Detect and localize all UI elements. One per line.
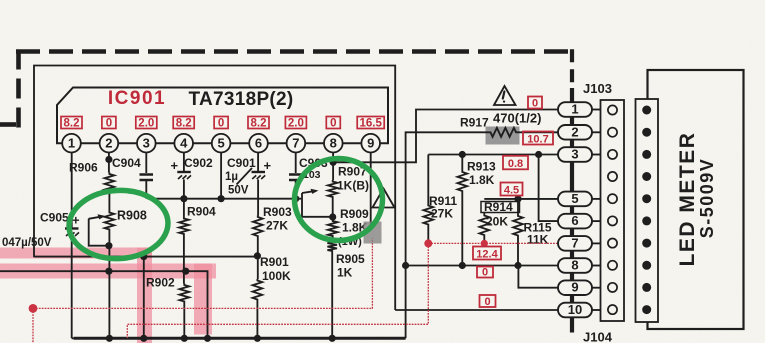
R908 wiper arrow (89, 217, 101, 219)
junction node at 462.3,154.5 (459, 151, 466, 158)
plug pin dot 2 (642, 128, 651, 137)
highlighter band upper horizontal (0, 248, 152, 259)
ground bus wire y=338.3 (74, 337, 406, 340)
outer solid box top/left/right (34, 66, 395, 311)
junction node at 333.1,162.3 (330, 159, 337, 166)
junction node at 183.9,198.7 (180, 195, 187, 202)
paper scan noise (0, 0, 1, 1)
wire pin1 down (71, 152, 73, 228)
junction node at 332.2,338.3 (329, 335, 336, 342)
wire oval2 left with corner down to bus (406, 132, 558, 338)
pin 7 circle (287, 134, 306, 153)
wire oval9 (518, 266, 558, 288)
junction node at 518,265.5 (514, 262, 521, 269)
highlighter band lower horizontal (0, 264, 216, 279)
resistor R911 (427, 155, 429, 205)
pin 5 voltage label 0 (214, 117, 228, 129)
warning triangle near R909 (373, 189, 395, 208)
voltage label 0.8 (503, 156, 528, 170)
red wire lower horizontal (33, 238, 372, 308)
pin 7 voltage label 2.0 (285, 117, 306, 129)
wire gnd horizontal y=256.6 (34, 256, 257, 258)
pin 1 circle (62, 134, 81, 153)
resistor R115 (517, 199, 519, 215)
wire oval3 (428, 154, 558, 156)
resistor R905 (327, 239, 337, 253)
pin 6 voltage label 8.2 (248, 117, 269, 129)
wire ovals3-6 junction vertical (539, 155, 558, 222)
connector J103/J104 pin 1 oval (558, 102, 592, 117)
plug pin dot 10 (642, 305, 651, 314)
pin 4 circle (174, 134, 193, 153)
red junction dot R914 bottom (481, 240, 488, 247)
red wire to oval7 (428, 242, 558, 244)
wire pin8 down (332, 152, 334, 180)
socket circle 5 (608, 194, 617, 203)
voltage label 0 (480, 295, 496, 307)
warning triangle top (494, 86, 516, 105)
capacitor C902 (177, 171, 191, 173)
plug pin dot 1 (642, 106, 651, 115)
junction node at 109.4,338.3 (106, 335, 113, 342)
junction node at 143.8,256.6 (140, 253, 147, 260)
socket circle 4 (608, 172, 617, 181)
pin 3 voltage label 2.0 (136, 117, 157, 129)
junction node at 462.3,265.5 (459, 262, 466, 269)
capacitor C905 (65, 227, 79, 229)
R907 wiper return loop (302, 193, 333, 217)
pin 9 voltage label 16.5 (357, 117, 384, 129)
wire C905 down to bus (72, 237, 75, 339)
junction node at 257.4,255.9 (254, 252, 261, 259)
socket circle 10 (608, 305, 617, 314)
junction node at 185.7,271.2 (182, 268, 189, 275)
resistor R914 with boxed label (481, 202, 520, 213)
resistor R903 (253, 216, 263, 238)
green annotation circle around R909 (295, 159, 383, 241)
wire oval10 (395, 309, 558, 311)
highlighter band vertical 1 (137, 248, 152, 343)
junction node at 405.6,265.5 (402, 262, 409, 269)
wire oval5 (484, 198, 558, 200)
red junction dot left (29, 304, 38, 313)
red junction dot R911 bottom (424, 239, 432, 247)
dashed boundary left stub (0, 122, 16, 127)
connector J103/J104 pin 6 oval (558, 214, 592, 229)
wire pin3 down (145, 152, 147, 173)
resistor R909 (328, 220, 338, 238)
voltage label 10.7 (523, 132, 553, 145)
voltage label 0 (528, 97, 542, 109)
resistor R917 (489, 128, 518, 137)
resistor R908 (variable) (105, 211, 115, 231)
resistor R906 (105, 173, 115, 193)
resistor R901 (253, 279, 263, 301)
junction node at 207.5,338.3 (204, 335, 211, 342)
red wire bottom left vertical (32, 308, 34, 343)
resistor R907 (variable) (328, 180, 338, 199)
pin 4 voltage label 8.2 (173, 117, 194, 129)
R907 wiper arrow (302, 191, 313, 193)
plug column with pins (636, 99, 659, 322)
red wire loop x428 down to bus (127, 243, 428, 338)
pin 8 voltage label 0 (326, 117, 340, 129)
resistor R904 (179, 217, 189, 236)
plug pin dot 6 (642, 216, 651, 225)
wire horizontal y=198.7 (148, 198, 302, 200)
wire pin4 down (183, 152, 185, 171)
wire pin7 down (295, 152, 297, 173)
junction node at 108.9,271.2 (105, 268, 112, 275)
wire long horizontal y=271.2 with corner to bus (0, 271, 208, 338)
dashed boundary left vertical (16, 50, 21, 129)
socket circle 3 (608, 150, 617, 159)
pin 2 circle (100, 134, 119, 153)
LED METER S-5009V box (648, 70, 744, 329)
connector J103/J104 pin 5 oval (558, 192, 592, 207)
connector J103/J104 pin 10 oval (558, 303, 592, 318)
socket circle 8 (608, 261, 617, 270)
junction node at 221.1,198.7 (218, 195, 225, 202)
wire pin5 down (220, 152, 222, 198)
junction node at 143.8,338.3 (140, 335, 147, 342)
connector socket column (601, 100, 625, 321)
plug pin dot 4 (642, 172, 651, 181)
junction node at 108.9,159.5 (105, 156, 112, 163)
connector cable thick vertical J103-J104 (570, 88, 574, 333)
wire oval8 y=265.5 (406, 265, 558, 267)
junction node at 108.9,245.7 (105, 242, 112, 249)
junction node at 257.4,338.3 (254, 335, 261, 342)
socket circle 7 (608, 239, 617, 248)
connector J103/J104 pin 7 oval (558, 236, 592, 251)
plug pin dot 7 (642, 239, 651, 248)
connector J103/J104 pin 2 oval (558, 125, 592, 140)
highlighter band vertical 2 (194, 264, 212, 335)
pin 2 voltage label 0 (102, 117, 116, 129)
gray highlight behind R917 (486, 127, 520, 145)
wire vertical x=143.8 highlighted (143, 257, 145, 339)
junction node at 295.7,198.7 (292, 195, 299, 202)
pin 3 circle (137, 134, 156, 153)
gray highlight blob near R909 (364, 222, 382, 244)
socket circle 6 (608, 216, 617, 225)
connector J103/J104 pin 3 oval (558, 147, 592, 162)
plug pin dot 5 (642, 194, 651, 203)
pin 1 voltage label 8.2 (61, 117, 82, 129)
socket circle 9 (608, 283, 617, 292)
junction node at 332.7,217 (329, 213, 336, 220)
capacitor C903 (289, 175, 303, 181)
op-amp IC901 TA7318P(2) body (57, 88, 388, 144)
voltage label 12.4 (473, 247, 501, 260)
junction node at 518,198.9 (514, 195, 521, 202)
socket circle 1 (608, 105, 617, 114)
plug pin dot 9 (642, 283, 651, 292)
pin 9 circle (361, 134, 380, 153)
junction node at 538.6,154.5 (535, 151, 542, 158)
pin 6 circle (249, 134, 268, 153)
resistor R913 (461, 155, 463, 171)
wire pin8/pin9 row to connector (333, 110, 558, 163)
plug pin dot 8 (642, 261, 651, 270)
resistor R902 (180, 284, 190, 304)
dashed boundary right corner down (570, 49, 574, 88)
wire pin6 down (257, 152, 259, 171)
socket circle 2 (608, 128, 617, 137)
wire pin9 down (370, 152, 372, 228)
green annotation circle around R908 (67, 188, 169, 261)
plug pin dot 3 (642, 150, 651, 159)
dashed circuit boundary top (16, 49, 570, 54)
voltage label 4.5 (501, 183, 523, 196)
capacitor C904 (140, 175, 154, 181)
connector J103/J104 pin 8 oval (558, 258, 592, 273)
pin 8 circle (324, 134, 343, 153)
pin 5 circle (212, 134, 231, 153)
connector J103/J104 pin 9 oval (558, 280, 592, 295)
junction node at 184.3,338.3 (181, 335, 188, 342)
R908 wiper return loop (89, 219, 110, 246)
wire pin2 down (108, 152, 110, 172)
capacitor C901 (252, 171, 266, 173)
voltage label 0 (477, 267, 493, 278)
